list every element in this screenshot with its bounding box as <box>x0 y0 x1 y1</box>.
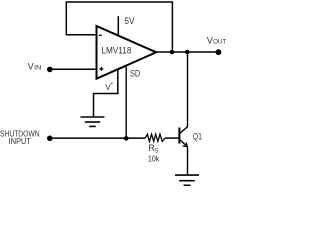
transistor Q1 <box>179 126 202 146</box>
svg-text:LMV118: LMV118 <box>101 46 131 56</box>
resistor RS 10k <box>145 134 165 163</box>
svg-text:V: V <box>105 83 111 92</box>
wire V- pin to ground <box>94 70 118 117</box>
wire feedback loop from output node to inverting input <box>66 2 172 52</box>
svg-text:SD: SD <box>130 68 140 78</box>
ground for op-amp V- pin <box>81 117 105 126</box>
svg-text:INPUT: INPUT <box>9 137 31 146</box>
svg-text:V: V <box>28 61 34 71</box>
node collector junction <box>185 50 190 55</box>
terminal VIN <box>47 67 53 73</box>
svg-text:10k: 10k <box>148 153 160 163</box>
wire collector to output node <box>187 52 189 127</box>
svg-text:5V: 5V <box>124 16 134 26</box>
svg-text:OUT: OUT <box>213 39 226 46</box>
ground for emitter of Q1 <box>175 175 199 185</box>
wire non-inverting input <box>50 68 97 70</box>
node SD junction <box>124 136 129 141</box>
wire emitter to ground <box>187 147 189 176</box>
terminal SHUTDOWN <box>47 136 53 142</box>
wire SD pin down to shutdown net <box>125 66 127 139</box>
wire shutdown input <box>50 137 145 139</box>
svg-text:Q1: Q1 <box>193 131 202 141</box>
wire output <box>155 51 219 53</box>
wire resistor to base <box>165 137 180 139</box>
svg-text:IN: IN <box>34 64 41 71</box>
terminal VOUT <box>216 49 222 55</box>
wire 5V supply pin <box>117 16 119 36</box>
node feedback junction <box>170 50 175 55</box>
op-amp U1 LMV118 <box>97 26 157 79</box>
